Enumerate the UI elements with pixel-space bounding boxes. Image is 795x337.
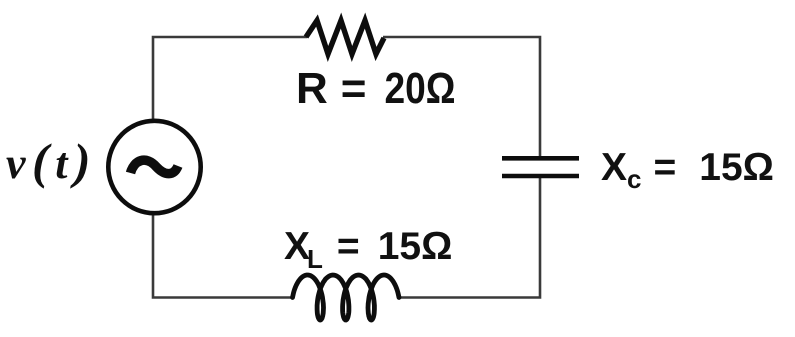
- svg-text:Xc=15Ω: Xc=15Ω: [601, 146, 774, 194]
- capacitor C1 bottom plate: [502, 174, 579, 179]
- svg-text:v(t): v(t): [6, 133, 97, 189]
- resistor R1: [306, 21, 384, 55]
- svg-text:XL=15Ω: XL=15Ω: [284, 225, 452, 274]
- wire bottom-left: [153, 213, 292, 298]
- capacitor C1 top plate: [502, 156, 579, 161]
- svg-text:R=20Ω: R=20Ω: [296, 64, 455, 113]
- ac source U1: [108, 121, 200, 213]
- inductor L1: [293, 275, 400, 320]
- wire top-right: [383, 37, 540, 156]
- wire bottom-right: [399, 178, 540, 298]
- sine symbol: [131, 160, 179, 173]
- wire top-left: [153, 37, 307, 121]
